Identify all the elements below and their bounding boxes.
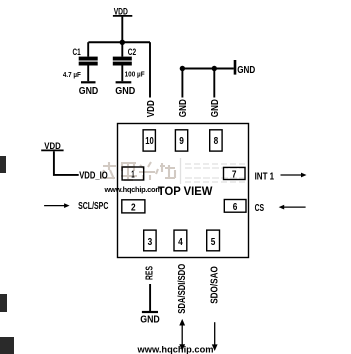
svg-text:RES: RES [144,266,155,280]
svg-text:GND: GND [79,86,99,97]
wire: GND net horizontal (top right) [182,68,233,70]
wire: VDD symbol to rail [121,17,123,43]
arrow into SCL/SPC [44,203,70,208]
svg-text:SCL/SPC: SCL/SPC [78,201,109,212]
svg-text:3: 3 [148,237,153,248]
svg-text:1: 1 [131,170,135,181]
power symbol VDD (left, for VDD_IO) [41,141,63,152]
svg-text:GND: GND [140,315,160,326]
pad 4 [174,230,187,251]
svg-text:VDD: VDD [146,100,157,117]
pad 1 [122,167,144,181]
svg-text:7: 7 [232,169,237,180]
wire: GND to pin 8 [213,69,215,98]
pad 8 [210,130,222,151]
wire: top rail [88,41,150,43]
pad 9 [175,130,187,151]
svg-text:GND: GND [210,99,221,117]
svg-text:CS: CS [255,203,265,214]
node: GND net junction right [212,66,217,71]
arrow: SDO output down [212,322,218,351]
capacitor C2 [113,42,132,81]
pad 5 [207,230,220,251]
svg-text:C2: C2 [128,47,136,58]
svg-text:8: 8 [214,136,219,147]
pad 10 [143,130,155,151]
pad 6 [224,200,246,214]
svg-text:5: 5 [211,237,216,248]
svg-text:10: 10 [145,136,154,147]
wire: rail corner to VDD pin of IC [149,42,151,97]
svg-text:6: 6 [233,202,238,213]
svg-text:www.hqchip.com: www.hqchip.com [104,185,163,194]
svg-text:TOP VIEW: TOP VIEW [158,184,213,198]
svg-text:GND: GND [115,86,135,97]
wire: VDD_IO L-shape [54,151,79,175]
power symbol VDD (top) [113,7,132,17]
svg-text:4: 4 [178,237,183,248]
pad 2 [122,200,145,214]
arrow: SDA bidirectional [179,319,185,351]
capacitor C1 [79,42,98,81]
node: GND net junction left [180,66,185,71]
svg-text:GND: GND [237,65,255,76]
svg-text:SDA/SDI/SDO: SDA/SDI/SDO [177,264,188,314]
svg-text:VDD_IO: VDD_IO [79,170,108,181]
svg-text:4.7 µF: 4.7 µF [63,70,81,79]
wire: GND to pin 9 [181,69,183,98]
ground (C1) [79,81,99,97]
pad 3 [144,230,156,251]
pad 7 [224,167,246,180]
svg-text:SDO/SAO: SDO/SAO [210,266,221,304]
ground (C2) [115,81,135,97]
svg-text:2: 2 [131,202,136,213]
svg-text:GND: GND [178,99,189,117]
node: junction on rail [120,40,125,45]
ground symbol (RES) [140,311,160,326]
IC body U1 (TOP VIEW) [118,124,249,258]
svg-text:www.hqchip.com: www.hqchip.com [137,345,214,354]
wire: RES to ground [149,284,151,311]
svg-text:C1: C1 [73,47,82,58]
arrow into CS [279,205,306,210]
ground symbol (top right) [234,60,256,76]
watermark background (unlabeled decorative) [101,162,175,180]
svg-text:INT 1: INT 1 [255,172,275,183]
svg-text:100 µF: 100 µF [125,70,145,79]
arrow out of INT 1 [281,173,307,178]
svg-text:9: 9 [179,136,184,147]
